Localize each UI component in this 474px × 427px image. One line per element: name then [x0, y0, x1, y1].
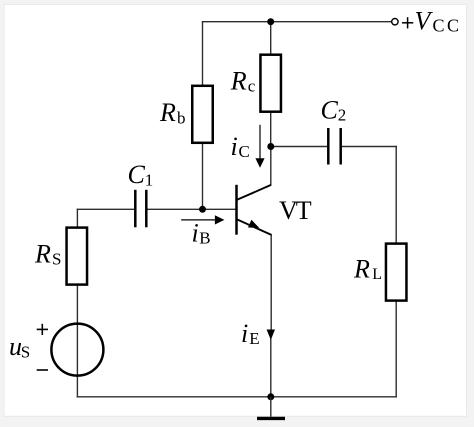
wire: top supply rail [203, 21, 392, 23]
label C2 [321, 95, 347, 124]
wire: collector node down to transistor collector [270, 147, 272, 185]
svg-text:R: R [34, 239, 51, 268]
transistor VT [237, 185, 272, 235]
label C1 [128, 160, 154, 190]
svg-text:CC: CC [433, 16, 462, 36]
label iE [241, 319, 260, 348]
current arrow iE (on emitter wire) [267, 330, 275, 341]
wire: RS top to input corner [76, 209, 78, 227]
wire: rail junction down to Rc top [270, 22, 272, 55]
svg-text:C: C [128, 160, 146, 189]
resistor Rc [260, 55, 281, 112]
wire: input horizontal to C1 left plate [77, 208, 134, 210]
wire: bottom rail [77, 396, 396, 398]
svg-text:i: i [192, 219, 199, 248]
label iC [231, 132, 250, 161]
svg-text:i: i [231, 132, 238, 161]
wire: right vertical down to RL top [395, 147, 397, 244]
svg-text:1: 1 [145, 170, 154, 189]
terminal +VCC open circle [392, 19, 398, 25]
polarity plus [37, 324, 48, 335]
svg-text:L: L [372, 266, 382, 283]
resistor RL [386, 244, 407, 301]
polarity minus [37, 369, 48, 371]
current arrow iC [255, 125, 264, 168]
label uS [9, 332, 30, 361]
wire: RL bottom to bottom rail [395, 301, 397, 397]
label iB [192, 219, 211, 248]
current arrow iB [181, 215, 224, 224]
wire: left vertical from rail to Rb top [202, 22, 204, 86]
wire: Rc bottom to collector node [270, 112, 272, 147]
wire: C2 right plate to right corner [342, 146, 396, 148]
svg-text:2: 2 [338, 106, 347, 125]
svg-text:R: R [230, 67, 247, 96]
junction dot: emitter/ground node [267, 393, 274, 400]
source uS (circle) [51, 324, 103, 376]
wire: bottom-left vertical through source to RS bottom [76, 285, 78, 397]
svg-text:R: R [159, 98, 176, 127]
svg-text:C: C [239, 142, 250, 161]
label +VCC [402, 6, 462, 35]
label RL [353, 254, 382, 283]
svg-text:VT: VT [279, 196, 312, 225]
svg-text:S: S [52, 250, 61, 269]
junction dot: collector node [267, 143, 274, 150]
svg-text:b: b [177, 109, 186, 128]
label RS [34, 239, 61, 268]
ground [257, 397, 285, 419]
svg-text:B: B [199, 229, 210, 248]
label Rb [159, 98, 186, 128]
svg-text:c: c [248, 77, 256, 96]
wire: collector node to C2 left plate [271, 146, 327, 148]
wire: emitter vertical down to ground node [270, 235, 272, 330]
svg-text:S: S [21, 342, 30, 361]
junction dot: top rail / Rc branch [267, 18, 274, 25]
svg-text:R: R [353, 254, 370, 283]
resistor Rb [192, 86, 213, 143]
capacitor C1 [135, 190, 146, 228]
svg-text:C: C [321, 95, 339, 124]
label Rc [230, 67, 256, 96]
resistor RS [67, 228, 88, 285]
wire: base node to transistor base bar [203, 208, 236, 210]
wire: Rb bottom to base node [202, 143, 204, 210]
svg-text:i: i [241, 319, 248, 348]
junction dot: base node [199, 206, 206, 213]
svg-text:E: E [249, 329, 259, 348]
capacitor C2 [328, 128, 340, 165]
wire: C1 right plate to base node [147, 208, 202, 210]
